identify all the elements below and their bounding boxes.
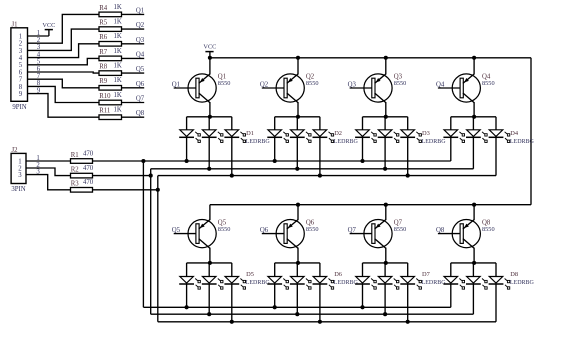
wire J1 pin 8 to R10	[28, 86, 100, 102]
svg-text:3PIN: 3PIN	[11, 186, 25, 193]
wire mid bus2 (net R2)	[151, 168, 474, 170]
svg-text:3: 3	[19, 48, 23, 55]
svg-text:1K: 1K	[114, 77, 122, 84]
svg-text:LEDRBG: LEDRBG	[510, 139, 535, 145]
wire mid bus3 (net R3)	[158, 175, 496, 177]
connector J1 box	[11, 28, 28, 102]
svg-text:Q8: Q8	[136, 110, 145, 117]
LED D8a anode wire	[450, 263, 452, 277]
resistor R3 value 470	[83, 179, 94, 186]
LED D1c symbol	[224, 130, 245, 143]
svg-text:1K: 1K	[114, 107, 122, 114]
transistor Q3 base net label	[348, 81, 357, 88]
wire Q8 collector down	[473, 248, 475, 263]
junction D1c cathode to bus3	[230, 174, 234, 178]
LED D6a symbol	[267, 277, 288, 290]
J1 pin 1 number	[19, 33, 22, 40]
LED D7b cathode wire	[384, 284, 386, 314]
LED D7b anode wire	[384, 263, 386, 277]
transistor Q7 type 8550	[394, 226, 407, 233]
junction D5a cathode to bus1	[185, 305, 189, 309]
transistor Q4 designator	[482, 74, 491, 81]
wire Q4 collector down	[473, 102, 475, 117]
transistor Q3 symbol (8550 PNP)	[364, 74, 392, 103]
wire Q7 emitter to VCC rail	[385, 205, 387, 220]
LED D7a cathode wire	[362, 284, 364, 307]
wire Q6 base stub	[262, 233, 285, 235]
wire VCC rail row2	[210, 204, 531, 206]
transistor Q8 designator	[482, 219, 491, 226]
LED D3b anode wire	[384, 117, 386, 130]
J2 pin 2 wire	[26, 168, 71, 176]
LED D8a cathode wire	[450, 284, 452, 307]
connector J1 type label 9PIN	[12, 104, 26, 111]
wire Q4 base stub	[438, 87, 461, 89]
LED D7a symbol	[355, 277, 376, 290]
LED D8b cathode wire	[472, 284, 474, 314]
wire D4 anode rail	[451, 116, 496, 118]
resistor R5 label	[99, 20, 108, 27]
LED D5a symbol	[179, 277, 200, 290]
resistor R9 value 1K	[114, 77, 122, 84]
J1 pin 1 wire	[28, 35, 49, 37]
svg-text:J2: J2	[11, 147, 18, 154]
resistor R6 value 1K	[114, 33, 122, 40]
junction D4 rail to collector	[472, 115, 476, 119]
LED D6a cathode wire	[274, 284, 276, 307]
LED D2b symbol	[290, 130, 311, 143]
J1 pin 3 number	[19, 48, 23, 55]
LED D8c symbol	[489, 277, 510, 290]
wire J1 pin 5 to R7	[28, 58, 100, 64]
wire Q1 collector down	[209, 102, 211, 117]
junction D1b cathode to bus2	[207, 167, 211, 171]
resistor R5 output wire	[122, 28, 145, 30]
junction VCC at Q6 emitter	[296, 203, 300, 207]
wire bottom bus3 (net R3)	[158, 321, 496, 323]
junction D2c cathode to bus3	[318, 174, 322, 178]
J2 pin 1 wire	[26, 160, 71, 162]
svg-text:1K: 1K	[114, 48, 122, 55]
wire D1 anode rail	[187, 116, 232, 118]
junction D5c cathode to bus3	[230, 320, 234, 324]
J1 pin 5 wire label	[37, 59, 41, 66]
junction VCC at Q3 emitter	[384, 56, 388, 60]
transistor Q8 symbol (8550 PNP)	[452, 220, 480, 249]
transistor Q6 symbol (8550 PNP)	[276, 220, 304, 249]
J1 pin 9 wire label	[37, 87, 41, 94]
resistor R1 body	[71, 159, 93, 164]
J2 pin 2 wire label	[36, 162, 40, 169]
svg-text:8550: 8550	[306, 80, 319, 87]
resistor R11 body	[99, 115, 122, 120]
wire Q2 base stub	[262, 87, 285, 89]
svg-text:LEDRBG: LEDRBG	[246, 280, 271, 286]
LED D1c anode wire	[231, 117, 233, 130]
svg-text:5: 5	[19, 62, 23, 69]
J1 pin 7 number	[19, 77, 23, 84]
resistor R10 label	[99, 93, 111, 100]
resistor R11 label	[99, 108, 110, 115]
svg-text:470: 470	[83, 165, 94, 172]
junction R1 net to vertical V1	[141, 159, 145, 163]
svg-text:D6: D6	[334, 271, 342, 278]
resistor R5 value 1K	[114, 19, 122, 26]
LED D5c symbol	[224, 277, 245, 290]
transistor Q3 designator	[394, 74, 403, 81]
LED D6b cathode wire	[296, 284, 298, 314]
svg-text:7: 7	[19, 77, 23, 84]
svg-text:D2: D2	[334, 130, 342, 137]
svg-text:1K: 1K	[114, 33, 122, 40]
wire R1 to mid bus1 / row net 1	[93, 160, 451, 162]
net label Q2	[136, 22, 145, 29]
LED D2 designator	[334, 130, 342, 137]
net label Q8	[136, 110, 145, 117]
transistor Q3 type 8550	[394, 80, 407, 87]
wire D8 anode rail	[451, 262, 496, 264]
LED D1b anode wire	[208, 117, 210, 130]
LED D8 type LEDRBG	[510, 280, 535, 286]
wire Q6 collector down	[297, 248, 299, 263]
junction D6c cathode to bus3	[318, 320, 322, 324]
svg-text:3: 3	[18, 172, 22, 179]
wire Q1 base stub	[174, 87, 197, 89]
connector J1 designator label	[11, 21, 17, 28]
net label Q6	[136, 81, 145, 88]
junction D5b cathode to bus2	[207, 312, 211, 316]
wire Q2 collector down	[297, 102, 299, 117]
svg-text:1: 1	[18, 158, 21, 165]
VCC label main	[203, 44, 216, 51]
transistor Q6 type 8550	[306, 226, 319, 233]
net label Q5	[136, 66, 145, 73]
J1 pin 6 wire label	[37, 66, 41, 73]
junction D7 rail to collector	[384, 261, 388, 265]
resistor R9 body	[99, 86, 122, 91]
J2 pin 3 wire	[26, 175, 71, 190]
LED D7b symbol	[378, 277, 399, 290]
resistor R5 body	[99, 27, 122, 32]
wire Q5 emitter to VCC rail	[209, 205, 211, 220]
LED D6c anode wire	[319, 263, 321, 277]
LED D6a anode wire	[274, 263, 276, 277]
transistor Q1 designator	[218, 74, 226, 81]
connector J2 box	[11, 153, 26, 183]
LED D2b anode wire	[296, 117, 298, 130]
svg-text:D4: D4	[510, 130, 519, 137]
svg-text:R1: R1	[71, 152, 79, 159]
junction VCC at Q8 emitter	[472, 203, 476, 207]
wire D5 anode rail	[187, 262, 232, 264]
junction R3 net to vertical V3	[156, 188, 160, 192]
wire D6 anode rail	[275, 262, 320, 264]
LED D3a anode wire	[362, 117, 364, 130]
LED D2a symbol	[267, 130, 288, 143]
wire D2 anode rail	[275, 116, 320, 118]
svg-text:8550: 8550	[306, 226, 319, 233]
svg-text:VCC: VCC	[42, 22, 55, 29]
LED D5b cathode wire	[208, 284, 210, 314]
LED D3b symbol	[378, 130, 399, 143]
svg-text:Q4: Q4	[136, 51, 145, 58]
junction D1a cathode to bus1	[185, 159, 189, 163]
LED D6 type LEDRBG	[334, 280, 359, 286]
resistor R4 label	[99, 5, 108, 12]
svg-text:R4: R4	[99, 5, 108, 12]
J1 pin 4 wire label	[37, 51, 41, 58]
resistor R7 body	[99, 56, 122, 61]
transistor Q4 type 8550	[482, 80, 495, 87]
LED D5 designator	[246, 271, 254, 278]
wire bottom bus2 (net R2)	[151, 313, 474, 315]
junction D3a cathode to bus1	[360, 159, 364, 163]
resistor R9 output wire	[122, 87, 145, 89]
transistor Q6 base net label	[260, 227, 269, 234]
LED D8b symbol	[466, 277, 487, 290]
LED D3a symbol	[355, 130, 376, 143]
connector J2 type label 3PIN	[11, 186, 25, 193]
junction VCC at Q7 emitter	[384, 203, 388, 207]
wire VCC right vertical	[530, 58, 532, 205]
svg-text:9: 9	[19, 91, 23, 98]
LED D5a anode wire	[186, 263, 188, 277]
net label Q1	[136, 7, 144, 14]
J2 pin 2 number	[18, 165, 22, 172]
LED D2 type LEDRBG	[334, 139, 359, 145]
J1 pin 2 number	[19, 41, 23, 48]
svg-text:Q7: Q7	[136, 96, 145, 103]
svg-text:8550: 8550	[394, 80, 407, 87]
LED D1a anode wire	[186, 117, 188, 130]
LED D3b cathode wire	[384, 137, 386, 169]
wire Q2 emitter to VCC rail	[297, 58, 299, 75]
LED D4 designator	[510, 130, 519, 137]
LED D4a symbol	[443, 130, 464, 143]
transistor Q1 symbol (8550 PNP)	[188, 74, 216, 103]
LED D5b symbol	[202, 277, 223, 290]
LED D3c cathode wire	[407, 137, 409, 175]
wire J1 pin 3 to R5	[28, 29, 100, 50]
wire R2 output	[93, 175, 151, 177]
transistor Q6 designator	[306, 219, 315, 226]
LED D7 type LEDRBG	[422, 280, 447, 286]
svg-text:8550: 8550	[482, 226, 495, 233]
junction D7b cathode to bus2	[383, 312, 387, 316]
junction D6a cathode to bus1	[273, 305, 277, 309]
wire Q7 collector down	[385, 248, 387, 263]
svg-text:1K: 1K	[114, 92, 122, 99]
J1 pin 8 wire label	[37, 80, 41, 87]
svg-text:6: 6	[19, 69, 23, 76]
resistor R3 label	[71, 181, 80, 188]
resistor R6 label	[99, 34, 108, 41]
LED D7 designator	[422, 271, 431, 278]
LED D4c cathode wire	[495, 137, 497, 175]
wire bottom bus1 (net R1)	[143, 306, 450, 308]
svg-text:470: 470	[83, 179, 94, 186]
svg-text:2: 2	[19, 41, 23, 48]
svg-text:R6: R6	[99, 34, 108, 41]
J2 pin 1 wire label	[36, 155, 39, 162]
wire Q3 emitter to VCC rail	[385, 58, 387, 75]
svg-text:8550: 8550	[218, 80, 231, 87]
junction D3b cathode to bus2	[383, 167, 387, 171]
J2 pin 1 number	[18, 158, 21, 165]
svg-text:LEDRBG: LEDRBG	[334, 139, 359, 145]
svg-text:D8: D8	[510, 271, 518, 278]
resistor R2 label	[71, 166, 80, 173]
transistor Q8 base net label	[436, 227, 445, 234]
svg-text:Q3: Q3	[136, 37, 145, 44]
wire Q8 emitter to VCC rail	[473, 205, 475, 220]
LED D3 type LEDRBG	[422, 139, 447, 145]
wire D3 anode rail	[363, 116, 408, 118]
LED D6b symbol	[290, 277, 311, 290]
junction R2 net to vertical V2	[149, 174, 153, 178]
wire Q6 emitter to VCC rail	[297, 205, 299, 220]
transistor Q4 symbol (8550 PNP)	[452, 74, 480, 103]
svg-text:LEDRBG: LEDRBG	[510, 280, 535, 286]
J1 pin 7 wire label	[37, 73, 41, 80]
svg-text:R7: R7	[99, 49, 108, 56]
LED D3a cathode wire	[362, 137, 364, 161]
LED D4 type LEDRBG	[510, 139, 535, 145]
J2 pin 3 number	[18, 172, 22, 179]
J1 pin 5 number	[19, 62, 23, 69]
junction VCC at Q4 emitter	[472, 56, 476, 60]
LED D1b symbol	[202, 130, 223, 143]
junction D5 rail to collector	[208, 261, 212, 265]
junction D2a cathode to bus1	[273, 159, 277, 163]
transistor Q5 symbol (8550 PNP)	[188, 220, 216, 249]
LED D8c cathode wire	[495, 284, 497, 322]
transistor Q2 base net label	[260, 81, 269, 88]
LED D1b cathode wire	[208, 137, 210, 169]
transistor Q7 designator	[394, 219, 403, 226]
resistor R3 body	[71, 188, 93, 193]
resistor R7 label	[99, 49, 108, 56]
power VCC symbol at J1	[45, 30, 53, 36]
net label Q7	[136, 96, 145, 103]
svg-text:9PIN: 9PIN	[12, 104, 26, 111]
LED D6c cathode wire	[319, 284, 321, 322]
svg-text:1K: 1K	[114, 63, 122, 70]
svg-text:VCC: VCC	[203, 44, 216, 51]
svg-text:R11: R11	[99, 108, 110, 115]
LED D1c cathode wire	[231, 137, 233, 175]
transistor Q1 base net label	[172, 81, 180, 88]
wire J1 pin 2 to R4	[28, 14, 100, 43]
resistor R10 output wire	[122, 102, 145, 104]
LED D2c symbol	[313, 130, 334, 143]
J1 pin 4 number	[19, 55, 23, 62]
svg-text:R2: R2	[71, 166, 80, 173]
resistor R10 body	[99, 100, 122, 105]
LED D3c symbol	[400, 130, 421, 143]
transistor Q4 base net label	[436, 81, 445, 88]
LED D8 designator	[510, 271, 518, 278]
LED D2a cathode wire	[274, 137, 276, 161]
J1 pin 8 number	[19, 84, 23, 91]
svg-text:R5: R5	[99, 20, 108, 27]
LED D7c cathode wire	[407, 284, 409, 322]
wire Q5 collector down	[209, 248, 211, 263]
junction D3 rail to collector	[384, 115, 388, 119]
svg-text:1K: 1K	[114, 4, 122, 11]
wire Q1 emitter to VCC rail	[209, 58, 211, 75]
svg-text:D1: D1	[246, 130, 254, 137]
LED D5b anode wire	[208, 263, 210, 277]
resistor R6 output wire	[122, 43, 145, 45]
svg-text:R3: R3	[71, 181, 80, 188]
LED D6b anode wire	[296, 263, 298, 277]
transistor Q5 base net label	[172, 227, 181, 234]
svg-text:R8: R8	[99, 64, 108, 71]
VCC label at J1	[42, 22, 55, 29]
transistor Q5 designator	[218, 219, 227, 226]
transistor Q7 base net label	[348, 227, 357, 234]
junction VCC at Q2 emitter	[296, 56, 300, 60]
junction D7a cathode to bus1	[360, 305, 364, 309]
J1 pin 3 wire label	[37, 44, 41, 51]
power VCC symbol main	[205, 52, 213, 58]
wire VCC rail row1	[210, 57, 531, 59]
connector J2 designator label	[11, 147, 18, 154]
transistor Q2 symbol (8550 PNP)	[276, 74, 304, 103]
LED D8c anode wire	[495, 263, 497, 277]
svg-text:Q2: Q2	[136, 22, 145, 29]
svg-text:LEDRBG: LEDRBG	[422, 280, 447, 286]
wire vertical V2 (net R2)	[150, 169, 152, 314]
LED D2a anode wire	[274, 117, 276, 130]
junction D6 rail to collector	[296, 261, 300, 265]
LED D4b anode wire	[472, 117, 474, 130]
J1 pin 9 number	[19, 91, 23, 98]
transistor Q2 designator	[306, 74, 315, 81]
svg-text:R10: R10	[99, 93, 111, 100]
LED D5c cathode wire	[231, 284, 233, 322]
resistor R10 value 1K	[114, 92, 122, 99]
LED D1a symbol	[179, 130, 200, 143]
net label Q3	[136, 37, 145, 44]
net label Q4	[136, 51, 145, 58]
svg-text:LEDRBG: LEDRBG	[246, 139, 271, 145]
J1 pin 2 wire label	[37, 37, 41, 44]
transistor Q7 symbol (8550 PNP)	[364, 220, 392, 249]
LED D1a cathode wire	[186, 137, 188, 161]
svg-text:LEDRBG: LEDRBG	[334, 280, 359, 286]
wire Q3 collector down	[385, 102, 387, 117]
LED D8b anode wire	[472, 263, 474, 277]
wire J1 pin 7 to R9	[28, 79, 100, 88]
LED D1 designator	[246, 130, 254, 137]
resistor R2 body	[71, 173, 93, 178]
LED D4b symbol	[466, 130, 487, 143]
wire Q4 emitter to VCC rail	[473, 58, 475, 75]
transistor Q5 type 8550	[218, 226, 231, 233]
resistor R11 output wire	[122, 116, 145, 118]
J2 pin 3 wire label	[36, 168, 40, 175]
LED D5c anode wire	[231, 263, 233, 277]
wire Q3 base stub	[350, 87, 373, 89]
resistor R8 output wire	[122, 72, 145, 74]
LED D4c anode wire	[495, 117, 497, 130]
svg-text:D7: D7	[422, 271, 431, 278]
LED D4a anode wire	[450, 117, 452, 130]
svg-text:Q1: Q1	[136, 7, 144, 14]
wire Q5 base stub	[174, 233, 197, 235]
